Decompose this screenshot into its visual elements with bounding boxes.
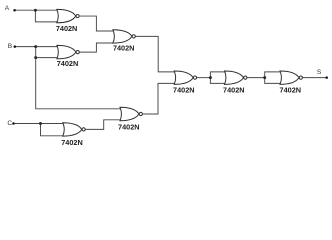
NOR gate U4 [63,123,85,136]
wire B vertical to lower input and down to U5 [36,47,123,109]
svg-text:A: A [5,5,10,12]
NOR gate U5 [120,107,142,120]
wire U7 output to U8 junction [247,77,265,79]
svg-text:7402N: 7402N [223,86,245,95]
terminal C pin [12,122,15,125]
NOR gate U1 [57,9,79,22]
wire U6 output to U7 junction [197,77,211,79]
svg-text:B: B [8,43,13,50]
svg-text:7402N: 7402N [113,44,135,53]
wire B lower input of U2 [36,57,60,59]
wire U4 output to U5 bottom input [85,120,122,130]
wire U5 output to U6 bottom input [142,83,176,114]
NOR gate U3 [113,30,135,43]
wire U3 output to U6 top input [136,36,177,72]
wire B input [15,46,60,48]
wire U8 tied-input loop [265,72,283,84]
wire C tied-input loop [41,124,65,136]
svg-text:C: C [7,120,12,127]
svg-text:7402N: 7402N [56,24,78,33]
svg-text:7402N: 7402N [61,138,83,147]
svg-text:7402N: 7402N [280,86,302,95]
junction at U8 input [263,76,266,79]
NOR gate U8 [280,71,302,84]
junction at B lower split [34,56,37,59]
NOR gate U2 [57,45,79,58]
terminal A pin [13,9,16,12]
wire U8 output to S [303,77,327,79]
junction at U7 input [209,76,212,79]
svg-text:7402N: 7402N [57,59,79,68]
NOR gate U6 [174,71,196,84]
junction on C wire [39,122,42,125]
wire A tied-input loop [35,10,60,22]
terminal S pin [325,76,328,79]
junction on B wire [34,45,37,48]
wire U1 output to U3 top input [79,16,115,31]
wire A input [15,9,60,11]
NOR gate U7 [225,71,247,84]
terminal B pin [14,45,16,48]
wire U7 tied-input loop [210,72,226,84]
wire C input [14,123,65,125]
wire U2 output to U3 bottom input [80,43,116,52]
svg-text:S: S [317,69,322,76]
svg-text:7402N: 7402N [118,123,140,132]
junction on A wire [34,9,37,12]
svg-text:7402N: 7402N [173,86,195,95]
